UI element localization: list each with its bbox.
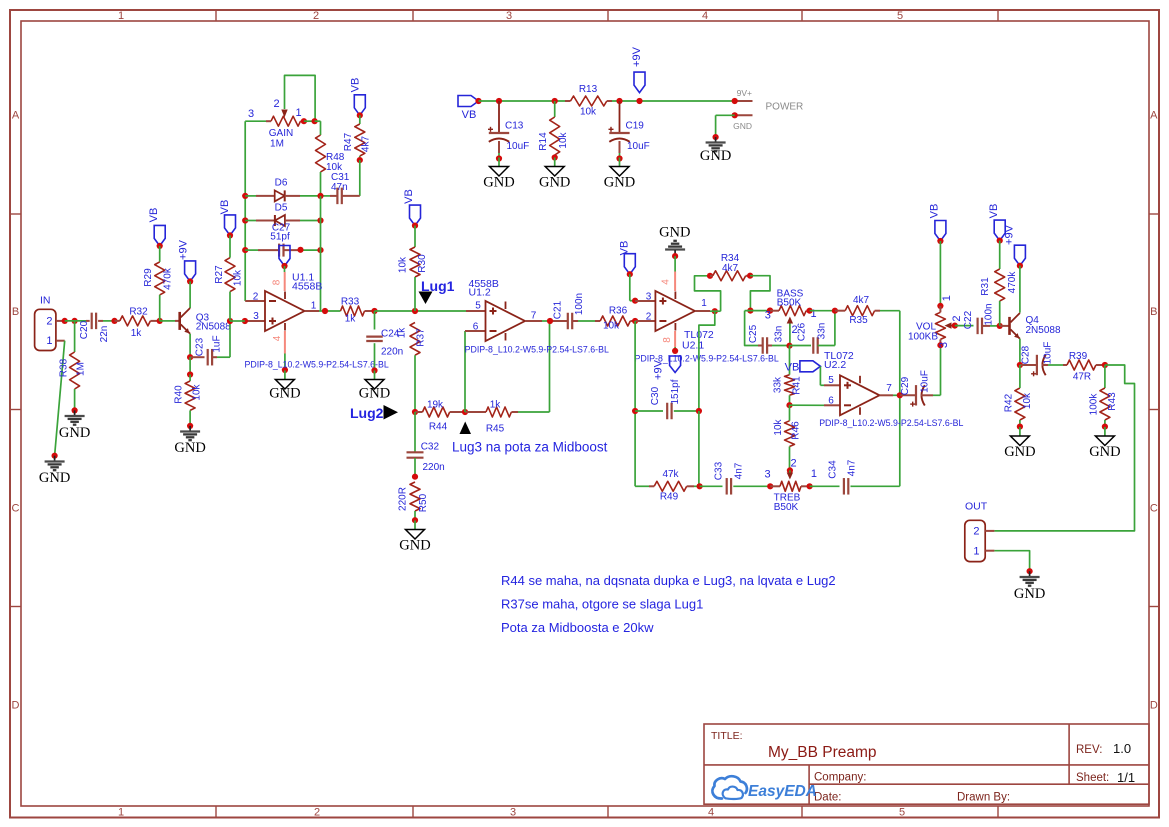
svg-text:R35: R35 (849, 315, 868, 326)
svg-text:C22: C22 (963, 310, 974, 329)
svg-text:7: 7 (886, 383, 892, 394)
svg-text:470k: 470k (163, 267, 174, 290)
svg-text:PDIP-8_L10.2-W5.9-P2.54-LS7.6-: PDIP-8_L10.2-W5.9-P2.54-LS7.6-BL (465, 345, 609, 355)
svg-text:R31: R31 (980, 277, 991, 296)
svg-text:C29: C29 (900, 376, 911, 395)
svg-text:B50K: B50K (777, 298, 802, 309)
svg-text:220R: 220R (398, 487, 409, 511)
svg-text:C32: C32 (421, 442, 440, 453)
svg-text:GND: GND (39, 470, 70, 486)
svg-text:GND: GND (1014, 586, 1045, 602)
svg-text:VB: VB (785, 362, 800, 374)
svg-text:C: C (12, 503, 20, 515)
svg-text:3: 3 (248, 108, 254, 120)
svg-text:VB: VB (929, 204, 941, 219)
svg-text:51pf: 51pf (270, 232, 290, 243)
svg-text:R39: R39 (1069, 351, 1088, 362)
svg-text:4k7: 4k7 (361, 136, 372, 153)
svg-text:1/1: 1/1 (1117, 770, 1135, 785)
svg-text:10uF: 10uF (627, 141, 650, 152)
svg-text:PDIP-8_L10.2-W5.9-P2.54-LS7.6-: PDIP-8_L10.2-W5.9-P2.54-LS7.6-BL (819, 418, 963, 428)
svg-text:VB: VB (219, 200, 231, 215)
svg-text:1k: 1k (397, 327, 408, 339)
svg-text:2: 2 (46, 315, 52, 327)
svg-text:2: 2 (951, 316, 963, 322)
svg-text:33n: 33n (817, 323, 828, 340)
svg-text:6: 6 (828, 395, 834, 406)
svg-text:10uF: 10uF (1043, 342, 1054, 365)
svg-text:2: 2 (314, 806, 320, 818)
svg-text:33k: 33k (773, 376, 784, 393)
svg-text:Lug2: Lug2 (350, 405, 384, 421)
svg-text:4k7: 4k7 (722, 263, 739, 274)
svg-text:5: 5 (828, 375, 834, 386)
svg-text:1M: 1M (270, 139, 284, 150)
svg-text:100n: 100n (984, 303, 995, 325)
svg-text:R37se maha, otgore se slaga Lu: R37se maha, otgore se slaga Lug1 (501, 597, 703, 612)
svg-text:10uF: 10uF (507, 141, 530, 152)
svg-text:8: 8 (662, 337, 673, 343)
svg-text:IN: IN (40, 295, 51, 307)
svg-text:C28: C28 (1021, 345, 1032, 364)
svg-text:3: 3 (510, 806, 516, 818)
svg-text:VB: VB (619, 241, 631, 256)
svg-text:VB: VB (403, 189, 415, 204)
svg-text:2: 2 (253, 292, 259, 303)
svg-text:C25: C25 (748, 324, 759, 343)
svg-text:5: 5 (899, 806, 905, 818)
svg-text:33n: 33n (774, 326, 785, 343)
svg-text:1: 1 (118, 806, 124, 818)
svg-text:R30: R30 (417, 254, 428, 273)
svg-text:2: 2 (273, 98, 279, 110)
svg-text:1M: 1M (76, 362, 87, 376)
svg-text:47k: 47k (662, 469, 679, 480)
svg-text:9V+: 9V+ (737, 88, 752, 98)
svg-text:220n: 220n (381, 347, 403, 358)
svg-text:R13: R13 (579, 84, 598, 95)
svg-text:C20: C20 (79, 320, 90, 339)
svg-text:GND: GND (483, 175, 514, 191)
svg-text:C19: C19 (626, 121, 645, 132)
svg-text:R42: R42 (1004, 393, 1015, 412)
svg-text:6: 6 (473, 322, 479, 333)
svg-text:1: 1 (46, 335, 52, 347)
svg-text:B: B (12, 306, 19, 318)
svg-text:1: 1 (296, 107, 302, 119)
svg-text:PDIP-8_L10.2-W5.9-P2.54-LS7.6-: PDIP-8_L10.2-W5.9-P2.54-LS7.6-BL (245, 360, 389, 370)
svg-text:R43: R43 (1107, 392, 1118, 411)
svg-text:R14: R14 (538, 132, 549, 151)
svg-text:3: 3 (253, 311, 259, 322)
svg-text:GND: GND (1089, 444, 1120, 460)
svg-text:VB: VB (148, 208, 160, 223)
svg-text:2N5088: 2N5088 (1026, 325, 1061, 336)
svg-text:10k: 10k (398, 256, 409, 273)
svg-text:R32: R32 (129, 307, 148, 318)
svg-text:R45: R45 (486, 424, 505, 435)
svg-text:GND: GND (539, 175, 570, 191)
svg-text:4: 4 (661, 279, 672, 285)
svg-text:10k: 10k (1022, 392, 1033, 409)
svg-text:R50: R50 (418, 493, 429, 512)
svg-text:U1.2: U1.2 (469, 287, 491, 299)
svg-text:Date:: Date: (814, 792, 842, 804)
svg-text:EasyEDA: EasyEDA (748, 783, 817, 800)
svg-text:4: 4 (708, 806, 714, 818)
svg-text:5: 5 (897, 10, 903, 22)
svg-text:4558B: 4558B (292, 281, 322, 293)
svg-text:10k: 10k (192, 383, 203, 400)
svg-text:B50K: B50K (774, 502, 799, 513)
svg-text:100KB: 100KB (908, 332, 938, 343)
svg-text:1: 1 (311, 301, 317, 312)
svg-text:R49: R49 (660, 492, 679, 503)
svg-text:22n: 22n (99, 326, 110, 343)
svg-text:10k: 10k (558, 131, 569, 148)
svg-text:4n7: 4n7 (734, 462, 745, 479)
svg-text:R44 se maha, na dqsnata dupka: R44 se maha, na dqsnata dupka e Lug3, na… (501, 573, 836, 588)
svg-text:GND: GND (359, 386, 390, 402)
svg-text:3: 3 (646, 292, 652, 303)
svg-text:10uF: 10uF (920, 370, 931, 393)
svg-text:R47: R47 (343, 132, 354, 151)
svg-text:1: 1 (810, 308, 816, 320)
svg-text:GND: GND (733, 121, 752, 131)
svg-text:4: 4 (702, 10, 708, 22)
svg-text:A: A (1150, 109, 1158, 121)
svg-text:D6: D6 (275, 178, 288, 189)
svg-text:1: 1 (701, 298, 707, 309)
svg-text:8: 8 (272, 279, 283, 285)
svg-text:R38: R38 (58, 358, 69, 377)
svg-text:C34: C34 (828, 460, 839, 479)
svg-text:1k: 1k (131, 328, 143, 339)
svg-text:4n7: 4n7 (847, 459, 858, 476)
svg-text:2N5088: 2N5088 (196, 322, 231, 333)
svg-text:GND: GND (604, 175, 635, 191)
svg-text:5: 5 (475, 301, 481, 312)
svg-text:R33: R33 (341, 297, 360, 308)
svg-text:1k: 1k (490, 400, 502, 411)
svg-text:3: 3 (938, 342, 950, 348)
svg-text:VB: VB (350, 78, 362, 93)
svg-text:D5: D5 (275, 203, 288, 214)
svg-text:1: 1 (118, 10, 124, 22)
svg-text:10k: 10k (773, 418, 784, 435)
svg-text:R27: R27 (214, 265, 225, 284)
svg-text:U2.1: U2.1 (682, 340, 704, 352)
svg-text:VB: VB (462, 109, 477, 121)
svg-text:Drawn By:: Drawn By: (957, 792, 1010, 804)
svg-text:C23: C23 (195, 337, 206, 356)
svg-text:GND: GND (659, 225, 690, 241)
svg-text:2: 2 (646, 312, 652, 323)
svg-text:3: 3 (764, 469, 770, 481)
svg-text:B: B (1150, 306, 1157, 318)
svg-text:GND: GND (399, 538, 430, 554)
svg-text:TITLE:: TITLE: (711, 730, 743, 742)
svg-text:GND: GND (700, 148, 731, 164)
svg-text:4: 4 (272, 335, 283, 341)
svg-text:1uF: 1uF (212, 335, 223, 352)
svg-text:R37: R37 (416, 328, 427, 347)
svg-text:19k: 19k (427, 400, 444, 411)
svg-text:C13: C13 (505, 121, 524, 132)
svg-text:C26: C26 (797, 322, 808, 341)
svg-text:Company:: Company: (814, 772, 866, 784)
svg-text:10k: 10k (603, 321, 620, 332)
svg-text:VB: VB (988, 204, 1000, 219)
svg-text:OUT: OUT (965, 501, 988, 513)
svg-text:Lug3 na pota za Midboost: Lug3 na pota za Midboost (452, 440, 608, 455)
svg-text:R46: R46 (791, 421, 802, 440)
svg-text:+9V: +9V (631, 46, 643, 67)
svg-text:+9V: +9V (178, 239, 190, 260)
svg-text:My_BB Preamp: My_BB Preamp (768, 744, 877, 761)
svg-text:C33: C33 (714, 461, 725, 480)
svg-text:1k: 1k (345, 314, 357, 325)
svg-text:47n: 47n (331, 182, 348, 193)
svg-text:3: 3 (765, 310, 771, 322)
svg-text:POWER: POWER (766, 102, 804, 113)
svg-text:Sheet:: Sheet: (1076, 772, 1109, 784)
svg-text:GND: GND (269, 386, 300, 402)
svg-text:R44: R44 (429, 422, 448, 433)
svg-text:1: 1 (973, 546, 979, 558)
svg-text:100n: 100n (574, 293, 585, 315)
svg-text:2: 2 (313, 10, 319, 22)
svg-text:151pf: 151pf (670, 379, 681, 404)
svg-text:D: D (1150, 699, 1158, 711)
svg-text:A: A (12, 109, 20, 121)
svg-text:470k: 470k (1007, 271, 1018, 294)
svg-text:+9V: +9V (1004, 224, 1016, 245)
svg-text:1: 1 (941, 295, 953, 301)
svg-text:R29: R29 (143, 268, 154, 287)
svg-text:GAIN: GAIN (269, 128, 293, 139)
svg-text:47R: 47R (1073, 372, 1091, 383)
svg-text:U2.2: U2.2 (824, 359, 846, 371)
svg-text:R36: R36 (609, 306, 628, 317)
svg-text:220n: 220n (423, 462, 445, 473)
svg-text:REV:: REV: (1076, 744, 1102, 756)
svg-text:10k: 10k (233, 269, 244, 286)
svg-text:+9V: +9V (653, 359, 665, 380)
svg-text:D: D (12, 699, 20, 711)
svg-text:2: 2 (791, 458, 797, 470)
svg-text:GND: GND (174, 440, 205, 456)
svg-text:10k: 10k (580, 107, 597, 118)
svg-text:2: 2 (973, 526, 979, 538)
svg-text:R40: R40 (174, 385, 185, 404)
svg-text:GND: GND (1004, 444, 1035, 460)
svg-text:1: 1 (811, 468, 817, 480)
svg-text:C30: C30 (650, 386, 661, 405)
svg-text:1.0: 1.0 (1113, 741, 1131, 756)
svg-text:C21: C21 (553, 300, 564, 319)
svg-text:7: 7 (531, 310, 537, 321)
svg-text:GND: GND (59, 425, 90, 441)
svg-text:Pota za Midboosta e 20kw: Pota za Midboosta e 20kw (501, 620, 654, 635)
svg-text:3: 3 (506, 10, 512, 22)
svg-text:100k: 100k (1089, 393, 1100, 416)
svg-text:4k7: 4k7 (853, 295, 870, 306)
svg-text:R41: R41 (792, 376, 803, 395)
svg-text:C: C (1150, 503, 1158, 515)
